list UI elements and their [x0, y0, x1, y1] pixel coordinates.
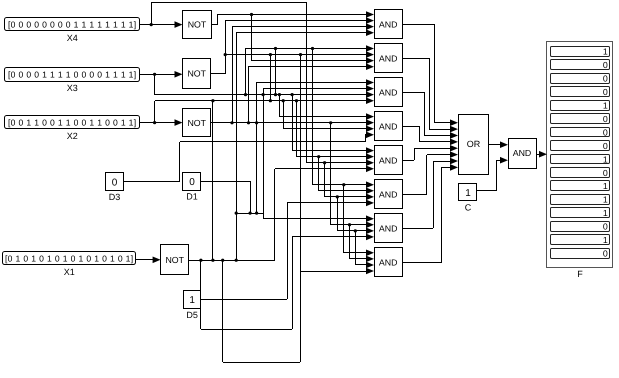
svg-text:NOT: NOT — [187, 118, 206, 128]
svg-text:0: 0 — [603, 248, 608, 258]
svg-text:[0 0 1 1 0 0 1 1 0 0 1 1 0 0 1: [0 0 1 1 0 0 1 1 0 0 1 1 0 0 1 1] — [8, 118, 137, 128]
svg-text:0: 0 — [603, 168, 608, 178]
svg-text:AND: AND — [513, 148, 532, 158]
svg-text:0: 0 — [603, 141, 608, 151]
svg-text:AND: AND — [379, 190, 398, 200]
svg-text:0: 0 — [603, 60, 608, 70]
svg-text:AND: AND — [379, 87, 398, 97]
svg-text:X2: X2 — [67, 131, 78, 141]
svg-text:1: 1 — [603, 154, 608, 164]
svg-text:X3: X3 — [67, 83, 78, 93]
svg-text:1: 1 — [465, 188, 471, 199]
svg-text:0: 0 — [112, 177, 118, 188]
svg-text:1: 1 — [189, 295, 195, 306]
svg-text:F: F — [577, 269, 583, 279]
svg-text:D5: D5 — [186, 310, 198, 320]
svg-text:AND: AND — [379, 224, 398, 234]
svg-text:[0 0 0 0 0 0 0 0 1 1 1 1 1 1 1: [0 0 0 0 0 0 0 0 1 1 1 1 1 1 1 1] — [8, 20, 137, 30]
svg-text:0: 0 — [603, 74, 608, 84]
svg-text:AND: AND — [379, 53, 398, 63]
svg-text:1: 1 — [603, 181, 608, 191]
svg-text:1: 1 — [603, 101, 608, 111]
svg-text:1: 1 — [603, 208, 608, 218]
svg-text:1: 1 — [603, 235, 608, 245]
svg-text:AND: AND — [379, 258, 398, 268]
svg-text:[0 1 0 1 0 1 0 1 0 1 0 1 0 1 0: [0 1 0 1 0 1 0 1 0 1 0 1 0 1 0 1] — [5, 254, 134, 264]
svg-text:0: 0 — [603, 114, 608, 124]
svg-text:D3: D3 — [109, 192, 121, 202]
svg-text:AND: AND — [379, 155, 398, 165]
svg-text:AND: AND — [379, 121, 398, 131]
svg-text:X1: X1 — [64, 267, 75, 277]
svg-text:D1: D1 — [186, 192, 198, 202]
svg-text:[0 0 0 0 1 1 1 1 0 0 0 0 1 1 1: [0 0 0 0 1 1 1 1 0 0 0 0 1 1 1 1] — [8, 70, 137, 80]
svg-text:NOT: NOT — [187, 69, 206, 79]
svg-text:NOT: NOT — [188, 20, 207, 30]
svg-text:X4: X4 — [67, 33, 78, 43]
svg-text:1: 1 — [603, 47, 608, 57]
svg-text:0: 0 — [603, 87, 608, 97]
svg-text:0: 0 — [189, 177, 195, 188]
svg-text:0: 0 — [603, 222, 608, 232]
svg-text:NOT: NOT — [165, 255, 184, 265]
svg-text:0: 0 — [603, 127, 608, 137]
svg-text:OR: OR — [467, 139, 481, 149]
svg-text:C: C — [465, 203, 472, 213]
svg-text:AND: AND — [379, 19, 398, 29]
svg-text:1: 1 — [603, 195, 608, 205]
